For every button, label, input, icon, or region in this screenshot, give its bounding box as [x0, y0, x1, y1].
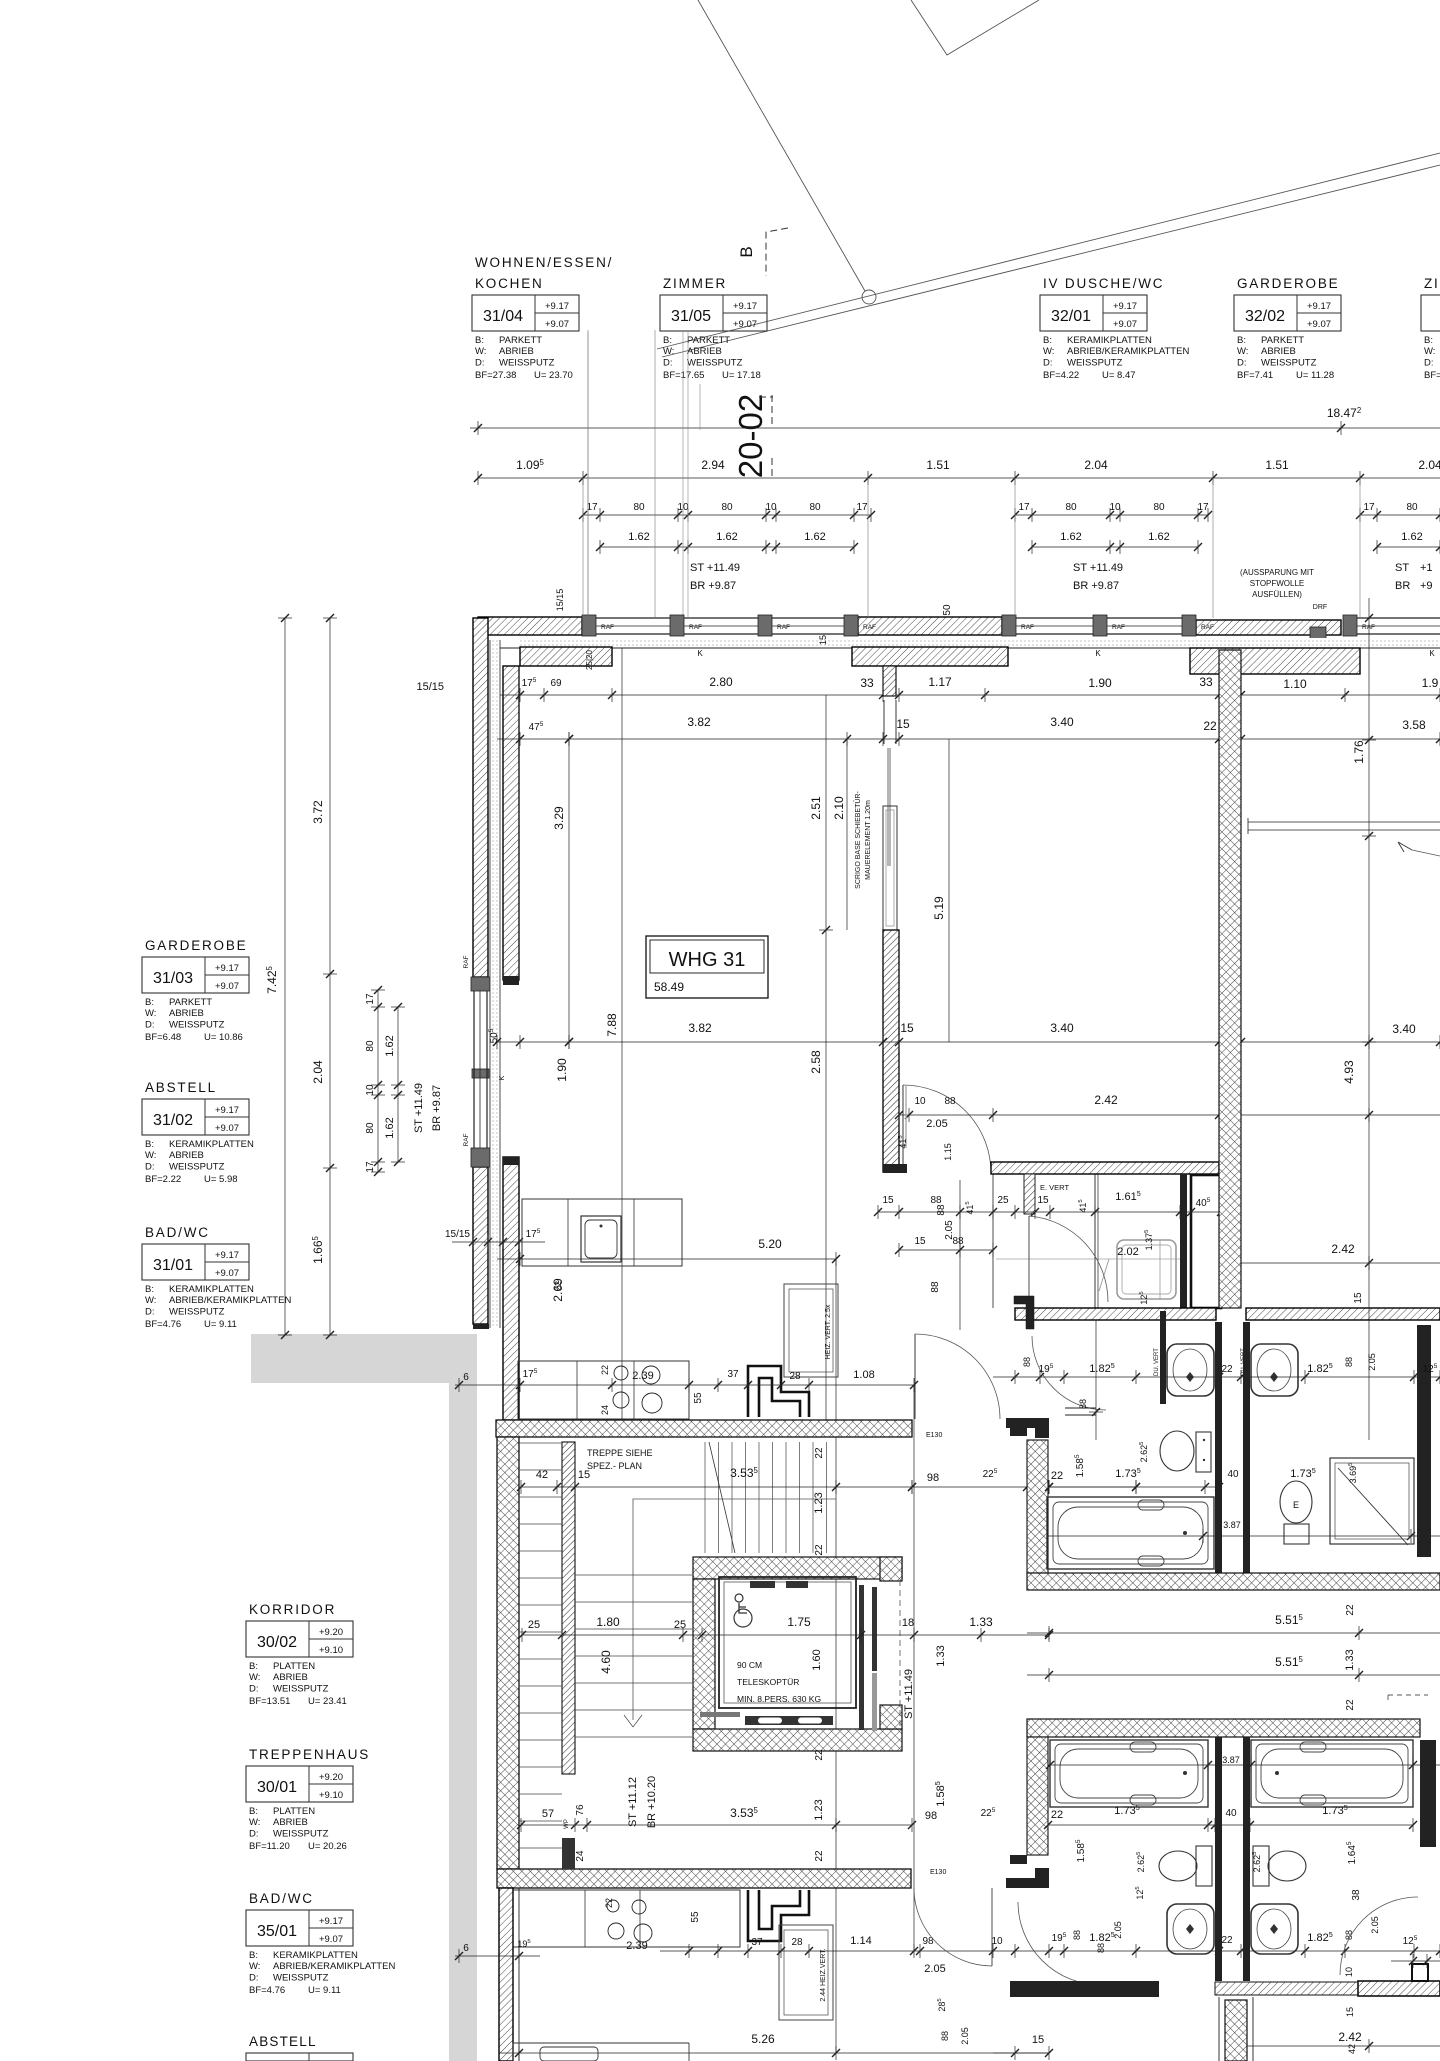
svg-text:BF=4.76: BF=4.76: [249, 1985, 285, 1996]
sliding door leaf: [887, 748, 891, 866]
lower bath top band: [1027, 1719, 1420, 1737]
svg-text:U= 23.41: U= 23.41: [308, 1696, 347, 1707]
svg-text:AUSFÜLLEN): AUSFÜLLEN): [1252, 590, 1302, 599]
svg-text:3.58: 3.58: [1402, 718, 1426, 732]
svg-text:KOCHEN: KOCHEN: [475, 276, 544, 291]
svg-text:80: 80: [633, 502, 645, 513]
svg-text:MAUERELEMENT 1.20m: MAUERELEMENT 1.20m: [865, 800, 872, 880]
right wall lower bath: [1420, 1740, 1436, 1847]
svg-text:D:: D:: [1237, 357, 1247, 368]
svg-text:ST +11.12: ST +11.12: [627, 1777, 639, 1827]
svg-text:K: K: [499, 1075, 506, 1080]
svg-text:BF=7.41: BF=7.41: [1237, 370, 1273, 381]
wall thickness dim 15/15: [452, 1241, 545, 1243]
duct shape upper: [748, 1366, 809, 1417]
left wall RAF blocks: [471, 977, 490, 991]
svg-text:W:: W:: [145, 1295, 156, 1306]
party wall vertical: [1219, 650, 1241, 1308]
svg-text:15: 15: [1345, 2007, 1355, 2017]
staircase dims mid: [522, 1634, 1049, 1636]
svg-text:1.33: 1.33: [1344, 1649, 1356, 1670]
dims upper bath: [1049, 1486, 1219, 1488]
svg-text:2.42: 2.42: [1094, 1093, 1118, 1107]
svg-text:ABSTELL: ABSTELL: [249, 2034, 317, 2049]
sliding door slot: [883, 700, 885, 744]
svg-text:3.87: 3.87: [1222, 1755, 1240, 1765]
kitchen sink: [581, 1216, 621, 1262]
svg-text:D:: D:: [249, 1683, 259, 1694]
svg-text:U= 23.70: U= 23.70: [534, 370, 573, 381]
upper bathtub: [1047, 1497, 1214, 1569]
svg-text:2.05: 2.05: [1113, 1921, 1123, 1939]
corridor bottom wall: [1015, 1308, 1216, 1320]
svg-text:+9.17: +9.17: [545, 301, 569, 312]
svg-text:17: 17: [1197, 502, 1209, 513]
svg-text:1.23: 1.23: [813, 1492, 825, 1513]
svg-text:5.19: 5.19: [932, 896, 946, 920]
room label 30/01: [246, 1747, 370, 1852]
dim row 3.82/15/3.40/3.40 y1042: [497, 1041, 1440, 1043]
lower kitchen (below staircase): [513, 1890, 740, 1947]
lower bath left wall: [1027, 1737, 1048, 1855]
svg-text:WEISSPUTZ: WEISSPUTZ: [273, 1683, 329, 1694]
svg-text:25: 25: [528, 1619, 540, 1631]
svg-text:88: 88: [1022, 1357, 1032, 1367]
lower bath dims: [1048, 1764, 1440, 1766]
svg-text:GARDEROBE: GARDEROBE: [1237, 276, 1339, 291]
svg-text:WEISSPUTZ: WEISSPUTZ: [499, 357, 555, 368]
svg-text:3.82: 3.82: [688, 1021, 712, 1035]
svg-text:3.87: 3.87: [1223, 1520, 1241, 1530]
svg-text:K: K: [1095, 649, 1101, 658]
elevator door bars: [859, 1585, 864, 1730]
svg-text:40: 40: [1227, 1469, 1239, 1480]
svg-text:D:: D:: [475, 357, 485, 368]
svg-text:U= 20.26: U= 20.26: [308, 1841, 347, 1852]
room label 31/03: [142, 938, 249, 1043]
right 2.42 dim: [1241, 1114, 1440, 1116]
dim row y1212: [878, 1211, 1221, 1213]
svg-text:PARKETT: PARKETT: [1261, 335, 1304, 346]
staircase top wall: [496, 1420, 912, 1437]
svg-text:22: 22: [1345, 1604, 1356, 1616]
svg-text:4.60: 4.60: [599, 1650, 613, 1674]
svg-text:17: 17: [856, 502, 868, 513]
room label 31/: [1421, 276, 1440, 381]
dim row 3.82/15/3.40 y739: [497, 738, 1440, 740]
svg-text:55: 55: [693, 1392, 704, 1404]
dim row kitchen y1385: [455, 1384, 914, 1386]
svg-text:WEISSPUTZ: WEISSPUTZ: [687, 357, 743, 368]
svg-text:ABSTELL: ABSTELL: [145, 1080, 217, 1095]
svg-text:U= 9.11: U= 9.11: [308, 1985, 341, 1996]
elevator cabin: [719, 1577, 856, 1708]
kitchen upper counter: [522, 1199, 682, 1266]
left window chain small: [377, 990, 379, 1172]
svg-text:+9.17: +9.17: [215, 963, 239, 974]
svg-text:2.05: 2.05: [1370, 1916, 1380, 1934]
svg-text:2.05: 2.05: [924, 1963, 945, 1975]
svg-text:10: 10: [365, 1084, 376, 1096]
right vertical dim line: [1368, 598, 1370, 1440]
room label 31/04: [472, 255, 613, 381]
svg-text:1.08: 1.08: [853, 1369, 874, 1381]
svg-text:WEISSPUTZ: WEISSPUTZ: [169, 1306, 225, 1317]
svg-text:2.04: 2.04: [1418, 458, 1440, 472]
svg-text:22: 22: [1221, 1364, 1233, 1375]
room label 35/01: [246, 1891, 395, 1996]
svg-text:42: 42: [1347, 2044, 1357, 2054]
svg-text:3.40: 3.40: [1050, 715, 1074, 729]
svg-text:RAF: RAF: [863, 624, 876, 631]
left overall vertical dims: [284, 618, 286, 1335]
svg-text:3.72: 3.72: [311, 800, 325, 824]
svg-text:1.62: 1.62: [1060, 531, 1081, 543]
svg-text:B: B: [737, 246, 756, 257]
svg-text:BR +9.87: BR +9.87: [1073, 580, 1119, 592]
svg-text:55: 55: [690, 1911, 701, 1923]
upper bath toilet: [1196, 1432, 1211, 1472]
svg-text:WP: WP: [564, 1819, 570, 1829]
svg-text:KERAMIKPLATTEN: KERAMIKPLATTEN: [169, 1139, 254, 1150]
inner leaf segments top: [520, 647, 612, 666]
svg-text:ST: ST: [1395, 562, 1409, 574]
svg-text:W:: W:: [145, 1008, 156, 1019]
svg-text:2.94: 2.94: [701, 458, 725, 472]
svg-text:+9.17: +9.17: [319, 1916, 343, 1927]
svg-text:15: 15: [818, 635, 828, 645]
dim row y1377: [993, 1376, 1440, 1378]
svg-text:80: 80: [365, 1040, 376, 1052]
svg-text:1.10: 1.10: [1283, 677, 1307, 691]
svg-text:1.62: 1.62: [628, 531, 649, 543]
svg-text:31/04: 31/04: [483, 308, 523, 325]
svg-text:ABRIEB: ABRIEB: [687, 346, 722, 357]
svg-text:15: 15: [1037, 1195, 1049, 1206]
right door arcs: [1340, 1897, 1418, 1975]
svg-text:33: 33: [860, 676, 874, 690]
svg-text:38: 38: [1351, 1889, 1362, 1901]
left wall window glazing: [473, 991, 475, 1148]
svg-text:RAF: RAF: [1112, 624, 1125, 631]
svg-text:BF=17.65: BF=17.65: [663, 370, 704, 381]
svg-text:17: 17: [365, 1161, 376, 1173]
svg-text:30/02: 30/02: [257, 1634, 297, 1651]
svg-text:ST +11.49: ST +11.49: [690, 562, 740, 574]
svg-text:ABRIEB/KERAMIKPLATTEN: ABRIEB/KERAMIKPLATTEN: [273, 1961, 395, 1972]
svg-text:W:: W:: [249, 1961, 260, 1972]
svg-text:15: 15: [896, 717, 910, 731]
room label 31/01: [142, 1225, 291, 1330]
svg-text:28: 28: [789, 1371, 801, 1382]
RAF window frame blocks top: [582, 615, 596, 636]
svg-text:1.33: 1.33: [969, 1615, 993, 1629]
svg-text:57: 57: [542, 1808, 554, 1820]
svg-text:ZIMMER: ZIMMER: [1424, 276, 1440, 291]
svg-text:22: 22: [1203, 719, 1217, 733]
svg-text:W:: W:: [663, 346, 674, 357]
room label 32/01: [1040, 276, 1189, 381]
left wall middle leaf dotted: [490, 640, 500, 1328]
window chain cluster 2: [1015, 514, 1208, 516]
svg-text:28: 28: [791, 1937, 803, 1948]
vertical dims inside: [568, 739, 570, 1042]
svg-text:+9.07: +9.07: [215, 1123, 239, 1134]
svg-text:BR +10.20: BR +10.20: [646, 1776, 658, 1828]
staircase left wall: [497, 1437, 519, 1869]
svg-text:ABRIEB/KERAMIKPLATTEN: ABRIEB/KERAMIKPLATTEN: [169, 1295, 291, 1306]
svg-text:15: 15: [882, 1195, 894, 1206]
svg-text:E130: E130: [930, 1869, 946, 1876]
svg-text:2.39: 2.39: [626, 1940, 647, 1952]
svg-text:1.33: 1.33: [935, 1645, 947, 1666]
svg-text:1.62: 1.62: [804, 531, 825, 543]
svg-text:W:: W:: [1043, 346, 1054, 357]
wall stub above sliding door: [883, 666, 896, 696]
svg-text:80: 80: [809, 502, 821, 513]
svg-text:1.75: 1.75: [787, 1615, 811, 1629]
corridor left edge line: [992, 1174, 994, 1308]
svg-text:ABRIEB: ABRIEB: [1261, 346, 1296, 357]
staircase bottom wall: [497, 1869, 911, 1888]
svg-text:18: 18: [902, 1617, 914, 1629]
duct shape lower: [748, 1890, 809, 1941]
svg-text:10: 10: [914, 1096, 926, 1107]
svg-text:D:: D:: [145, 1161, 155, 1172]
svg-text:U= 9.11: U= 9.11: [204, 1319, 237, 1330]
svg-text:+9.20: +9.20: [319, 1627, 343, 1638]
svg-text:88: 88: [944, 1096, 956, 1107]
svg-text:1.62: 1.62: [384, 1117, 396, 1138]
svg-text:WEISSPUTZ: WEISSPUTZ: [169, 1161, 225, 1172]
svg-text:D:: D:: [249, 1828, 259, 1839]
svg-text:22: 22: [1345, 1699, 1356, 1711]
site grey shading left: [251, 1334, 477, 2061]
svg-text:+9.07: +9.07: [1113, 319, 1137, 330]
svg-text:MIN. 8.PERS. 630 KG: MIN. 8.PERS. 630 KG: [737, 1694, 821, 1704]
svg-text:+9.17: +9.17: [215, 1250, 239, 1261]
svg-text:B:: B:: [1237, 335, 1246, 346]
svg-text:D:: D:: [249, 1972, 259, 1983]
svg-text:2.05: 2.05: [1367, 1353, 1377, 1371]
svg-text:10: 10: [765, 502, 777, 513]
svg-text:18.472: 18.472: [1327, 406, 1361, 420]
svg-text:BF=13.51: BF=13.51: [249, 1696, 290, 1707]
svg-text:98: 98: [925, 1810, 937, 1822]
stair spine wall: [562, 1442, 575, 1774]
svg-text:B:: B:: [1424, 335, 1433, 346]
svg-text:+9.20: +9.20: [319, 1772, 343, 1783]
lower bathtubs: [1050, 1740, 1208, 1807]
shower tray: [1117, 1240, 1176, 1299]
lower washbasins: [1167, 1904, 1214, 1954]
svg-text:RAF: RAF: [1201, 624, 1214, 631]
heiz cabinet lower: [779, 1925, 833, 2020]
corridor 5.51 dims: [1027, 1632, 1440, 1634]
svg-text:BF=27.38: BF=27.38: [475, 370, 516, 381]
elevator shaft: [693, 1557, 902, 1579]
svg-text:K: K: [697, 649, 703, 658]
svg-text:BF=: BF=: [1424, 370, 1440, 381]
svg-text:15/15: 15/15: [555, 589, 565, 612]
svg-text:TREPPENHAUS: TREPPENHAUS: [249, 1747, 370, 1762]
svg-text:2.10: 2.10: [832, 796, 846, 820]
svg-text:6: 6: [463, 1943, 469, 1954]
svg-text:1.17: 1.17: [928, 675, 952, 689]
svg-text:BR +9.87: BR +9.87: [431, 1085, 443, 1131]
svg-text:W:: W:: [249, 1672, 260, 1683]
svg-text:2.39: 2.39: [632, 1370, 653, 1382]
svg-text:22: 22: [814, 1544, 825, 1556]
svg-text:SCRIGO BASE SCHIEBETÜR-: SCRIGO BASE SCHIEBETÜR-: [854, 791, 862, 889]
svg-text:ABRIEB: ABRIEB: [169, 1150, 204, 1161]
svg-text:2.05: 2.05: [926, 1118, 947, 1130]
svg-text:15: 15: [1032, 2034, 1044, 2046]
bottom cut kitchen: [513, 2042, 689, 2044]
svg-text:+9.07: +9.07: [215, 1268, 239, 1279]
shower with diagonal: [1330, 1458, 1414, 1544]
svg-text:15: 15: [578, 1469, 590, 1481]
dim row 2.80/33/1.17/1.90/33/1.10 y695: [500, 694, 1440, 696]
bottom right dims: [1247, 2045, 1440, 2047]
svg-text:+9.17: +9.17: [733, 301, 757, 312]
svg-text:7.88: 7.88: [605, 1013, 619, 1037]
svg-text:ABRIEB: ABRIEB: [169, 1008, 204, 1019]
svg-text:WOHNEN/ESSEN/: WOHNEN/ESSEN/: [475, 255, 613, 270]
svg-text:88: 88: [930, 1195, 942, 1206]
svg-text:W:: W:: [249, 1817, 260, 1828]
svg-text:88: 88: [1078, 1399, 1088, 1409]
svg-text:88: 88: [940, 2031, 950, 2041]
svg-text:B:: B:: [249, 1950, 258, 1961]
svg-text:90 CM: 90 CM: [737, 1660, 762, 1670]
svg-text:E: E: [1293, 1500, 1299, 1510]
svg-text:31/02: 31/02: [153, 1112, 193, 1129]
sliding door pocket: [883, 806, 897, 930]
party wall pillar bottom: [1225, 2000, 1247, 2061]
dim 6 bottom: [455, 1955, 540, 1957]
svg-text:+9.17: +9.17: [1307, 301, 1331, 312]
svg-text:1.9: 1.9: [1422, 676, 1439, 690]
dim 5.20: [497, 1258, 836, 1260]
interior wall right of WHG31: [883, 930, 899, 1172]
svg-text:B:: B:: [145, 997, 154, 1008]
svg-text:32/01: 32/01: [1051, 308, 1091, 325]
shaft walls center: [1215, 1322, 1222, 1573]
svg-text:17: 17: [365, 993, 376, 1005]
svg-text:PLATTEN: PLATTEN: [273, 1806, 315, 1817]
svg-text:W:: W:: [1237, 346, 1248, 357]
main dimension chain 1.09/2.94/1.51/2.04/1.51: [478, 477, 1440, 479]
svg-text:B:: B:: [249, 1661, 258, 1672]
svg-text:2.69: 2.69: [551, 1278, 565, 1302]
svg-text:RAF: RAF: [463, 955, 470, 968]
svg-text:TREPPE SIEHE: TREPPE SIEHE: [587, 1448, 653, 1458]
garderobe rail: [1248, 821, 1440, 823]
svg-text:+9: +9: [1420, 580, 1433, 592]
right wall piece: [1417, 1325, 1431, 1557]
svg-text:2.04: 2.04: [311, 1060, 325, 1084]
svg-text:BF=2.22: BF=2.22: [145, 1174, 181, 1185]
svg-text:GARDEROBE: GARDEROBE: [145, 938, 247, 953]
svg-text:37: 37: [751, 1937, 763, 1948]
apartment entry door arc: [914, 1334, 916, 1419]
roof edge double diagonal: [657, 153, 1440, 349]
svg-text:42: 42: [536, 1469, 548, 1481]
window glazing lines top: [596, 617, 670, 619]
svg-text:ST +11.49: ST +11.49: [413, 1083, 425, 1133]
svg-text:BF=4.22: BF=4.22: [1043, 370, 1079, 381]
svg-text:B:: B:: [249, 1806, 258, 1817]
svg-text:4.93: 4.93: [1342, 1060, 1356, 1084]
svg-text:80: 80: [721, 502, 733, 513]
svg-text:WEISSPUTZ: WEISSPUTZ: [1261, 357, 1317, 368]
overall dimension 18.47: [470, 427, 1440, 429]
svg-text:1.76: 1.76: [1352, 740, 1366, 764]
WHG 31 title box: [646, 936, 768, 998]
svg-text:69: 69: [550, 678, 562, 689]
svg-text:15/15: 15/15: [445, 1229, 470, 1240]
svg-text:5.26: 5.26: [751, 2032, 775, 2046]
svg-text:B:: B:: [475, 335, 484, 346]
interior face line K: [496, 647, 1440, 649]
svg-text:2.05: 2.05: [960, 2027, 970, 2045]
svg-text:D:: D:: [145, 1306, 155, 1317]
window chain cluster 1: [583, 514, 871, 516]
dim 10 88 / 2.05 door: [899, 1114, 1219, 1116]
svg-text:BR: BR: [1395, 580, 1410, 592]
top exterior wall outer leaf: [478, 617, 582, 635]
svg-text:WEISSPUTZ: WEISSPUTZ: [273, 1972, 329, 1983]
svg-text:88: 88: [930, 1281, 941, 1293]
stair treads top flight vertical: [704, 1442, 706, 1553]
svg-text:80: 80: [1065, 502, 1077, 513]
hobs upper kitchenette: [614, 1366, 628, 1380]
svg-text:1.80: 1.80: [596, 1615, 620, 1629]
window chain cluster 3 (right edge): [1360, 514, 1440, 516]
svg-text:22: 22: [814, 1850, 825, 1862]
svg-text:B:: B:: [145, 1139, 154, 1150]
svg-text:15: 15: [900, 1021, 914, 1035]
svg-text:1.23: 1.23: [813, 1799, 825, 1820]
DRF block: [1310, 627, 1326, 640]
corridor top wall: [991, 1162, 1219, 1174]
bottom left wall below staircase: [499, 1888, 513, 2061]
bath partition walls: [1180, 1174, 1187, 1308]
svg-text:TELESKOPTÜR: TELESKOPTÜR: [737, 1677, 799, 1687]
stair cut diagonal: [709, 1442, 735, 1553]
svg-text:WEISSPUTZ: WEISSPUTZ: [273, 1828, 329, 1839]
svg-text:+9.10: +9.10: [319, 1790, 343, 1801]
svg-text:DRF: DRF: [1313, 604, 1327, 611]
bottom walls right: [1010, 1981, 1159, 1997]
svg-text:KERAMIKPLATTEN: KERAMIKPLATTEN: [273, 1950, 358, 1961]
svg-text:5.20: 5.20: [758, 1237, 782, 1251]
svg-text:32/02: 32/02: [1245, 308, 1285, 325]
svg-text:BAD/WC: BAD/WC: [145, 1225, 210, 1240]
svg-text:+1: +1: [1420, 562, 1433, 574]
svg-text:ABRIEB: ABRIEB: [273, 1672, 308, 1683]
svg-text:IV DUSCHE/WC: IV DUSCHE/WC: [1043, 276, 1164, 291]
svg-text:W:: W:: [145, 1150, 156, 1161]
svg-text:1.51: 1.51: [1265, 458, 1289, 472]
staircase dims top: [521, 1486, 912, 1488]
svg-text:1.62: 1.62: [1401, 531, 1422, 543]
svg-text:DU. VERT: DU. VERT: [1154, 1348, 1160, 1376]
svg-text:2.51: 2.51: [809, 796, 823, 820]
svg-text:1.51: 1.51: [926, 458, 950, 472]
svg-text:3.29: 3.29: [552, 806, 566, 830]
